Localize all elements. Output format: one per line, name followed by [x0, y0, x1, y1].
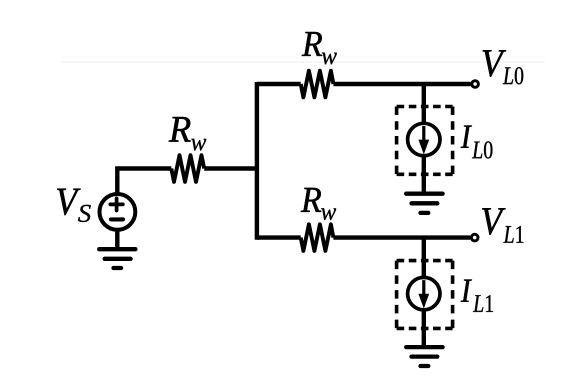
wire: VL0 node tap down to IL0	[422, 84, 426, 123]
resistor Rw (bottom branch)	[301, 224, 334, 251]
label VL1	[482, 208, 523, 243]
wire: bottom branch left segment	[257, 235, 301, 239]
label Rw (series)	[169, 117, 206, 150]
wire: bottom branch right segment to node VL1	[333, 235, 470, 239]
voltage source VS	[100, 194, 136, 230]
wire: VS bottom stub to ground	[115, 230, 119, 250]
resistor Rw (series from VS)	[171, 155, 204, 182]
label VL0	[483, 50, 523, 84]
label IL0	[461, 126, 493, 159]
label Rw (bottom branch)	[301, 188, 336, 220]
node VL0 terminal	[472, 81, 479, 88]
wire: VL1 node tap down to IL1	[422, 238, 426, 277]
wire: top branch right segment to node VL0	[333, 82, 470, 86]
wire: junction vertical bus	[255, 82, 259, 240]
resistor Rw (top branch)	[301, 71, 334, 98]
faint rule line	[61, 57, 545, 63]
current source IL0	[408, 123, 440, 155]
dashed box around IL0	[397, 107, 453, 175]
ground below IL1	[406, 347, 442, 366]
current source IL1	[408, 277, 440, 309]
wire: VS top stub to middle wire left segment	[117, 169, 171, 193]
wire: IL1 bottom to ground	[422, 310, 426, 349]
label Rw (top branch)	[302, 32, 337, 64]
wire: top branch left segment	[257, 82, 301, 86]
label VS	[57, 189, 90, 222]
node VL1 terminal	[471, 234, 478, 241]
ground below IL0	[406, 194, 442, 213]
label IL1	[461, 280, 493, 312]
dashed box around IL1	[397, 261, 453, 329]
wire: middle right segment to junction	[204, 166, 259, 170]
ground below VS	[99, 249, 135, 268]
wire: IL0 bottom to ground	[422, 156, 426, 195]
